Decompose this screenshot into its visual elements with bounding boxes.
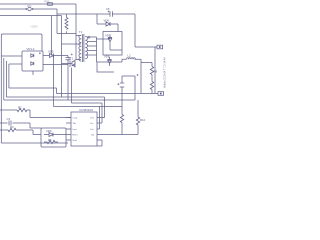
- wire bridge plus out: [43, 55, 48, 57]
- wire AC line 3: [0, 15, 62, 17]
- wire tap aux: [62, 43, 82, 45]
- wire: [57, 33, 76, 35]
- svg-text:VT1: VT1: [68, 57, 74, 61]
- diode VD9: [44, 133, 66, 137]
- wire: [137, 100, 139, 135]
- resistor R8: [150, 67, 153, 75]
- wire secondary bus: [96, 37, 98, 62]
- svg-text:Cmp: Cmp: [73, 117, 78, 119]
- wire filtered dc rail: [57, 13, 135, 15]
- svg-text:VD7: VD7: [105, 34, 111, 38]
- wire tap primary top: [76, 35, 81, 37]
- capacitor C6 bulk: [66, 53, 73, 59]
- svg-text:Vfb: Vfb: [73, 123, 77, 125]
- resistor R3: [0, 128, 41, 134]
- wire gate stub: [62, 63, 70, 65]
- svg-text:VD6: VD6: [104, 19, 110, 23]
- box rectifier outline: [103, 32, 122, 56]
- wire: [51, 16, 53, 56]
- wire: [121, 123, 123, 135]
- wire: [151, 90, 153, 94]
- svg-text:Vref: Vref: [90, 116, 94, 119]
- svg-text:FU1: FU1: [45, 0, 50, 4]
- svg-text:R8: R8: [154, 70, 158, 74]
- capacitor C3: [0, 121, 41, 129]
- wire bottom bus: [1, 142, 68, 144]
- wire nest 3: [4, 58, 135, 100]
- svg-text:VD5: VD5: [48, 50, 54, 54]
- box feedback outline: [41, 128, 66, 147]
- inductor L1: [65, 14, 68, 34]
- wire: [96, 14, 98, 24]
- fuse FU1: [47, 3, 53, 6]
- IC DA1 pin names right: [90, 116, 95, 136]
- svg-text:T1: T1: [79, 30, 83, 34]
- wire AC line 1: [0, 3, 76, 5]
- svg-text:VD9: VD9: [46, 129, 52, 133]
- wire nest 4: [54, 106, 123, 108]
- svg-text:VD1-4: VD1-4: [27, 47, 35, 51]
- diode VD7: [97, 35, 123, 51]
- svg-text:~220V: ~220V: [30, 25, 38, 29]
- wire VD5 cathode down: [53, 56, 55, 107]
- resistor R5: [44, 140, 58, 143]
- wire primary rail: [75, 4, 77, 60]
- wire bridge minus rail: [43, 64, 68, 66]
- svg-text:Out: Out: [90, 128, 94, 131]
- capacitor C10 plus mark: [137, 74, 139, 76]
- wire: [68, 56, 100, 130]
- svg-text:Makita DC1414 T 7.2-14.4V: Makita DC1414 T 7.2-14.4V: [164, 57, 167, 88]
- transformer T1 core: [83, 34, 84, 62]
- wire snubber cap branch: [122, 76, 135, 100]
- connector XS1 pin plus: [157, 45, 163, 49]
- transistor VT1: [70, 60, 76, 68]
- wire pin4: [97, 134, 122, 136]
- svg-text:C5: C5: [106, 7, 110, 11]
- diode VD5: [48, 54, 68, 58]
- wire: [122, 134, 138, 136]
- wire bridge bottom pin: [32, 71, 34, 75]
- wire AC line 2: [0, 8, 57, 10]
- svg-text:C3: C3: [7, 117, 11, 121]
- wire bridge loop: [1, 34, 42, 56]
- wire: [134, 14, 136, 47]
- svg-text:R10: R10: [140, 118, 146, 122]
- svg-text:UC3842AN: UC3842AN: [79, 108, 93, 112]
- capacitor C5: [107, 10, 115, 16]
- wire nest 1: [9, 64, 158, 94]
- wire pin5 bottom: [97, 140, 102, 146]
- resistor R2: [0, 108, 71, 117]
- svg-text:R3: R3: [10, 125, 14, 129]
- wire: [154, 47, 156, 94]
- svg-text:XP1: XP1: [27, 5, 32, 8]
- svg-text:R2: R2: [18, 106, 22, 110]
- inductor L2: [126, 58, 135, 60]
- wire secondary taps: [87, 37, 97, 55]
- svg-text:L2: L2: [128, 54, 132, 58]
- svg-text:Vcc: Vcc: [90, 123, 95, 125]
- IC DA1 pin names left: [73, 117, 78, 141]
- wire bridge ac pin 2: [9, 63, 22, 65]
- diode VD6 snubber: [97, 22, 118, 26]
- svg-text:VD8: VD8: [104, 55, 110, 59]
- svg-text:Gnd: Gnd: [73, 140, 78, 142]
- transformer T1 primary winding: [79, 35, 81, 61]
- wire gate line: [61, 16, 63, 97]
- resistor R11: [150, 82, 153, 90]
- wire output plus: [135, 46, 157, 48]
- svg-text:Rt/Ct: Rt/Ct: [73, 133, 78, 136]
- svg-text:Isen: Isen: [73, 129, 78, 131]
- capacitor C9: [117, 76, 124, 115]
- connector XS1 pin minus: [158, 92, 164, 96]
- wire nest 2: [6, 61, 104, 118]
- transformer T1 secondary winding: [85, 37, 87, 59]
- svg-text:Gd: Gd: [91, 134, 95, 136]
- svg-text:R5: R5: [48, 138, 52, 142]
- wire left outer bus: [0, 56, 2, 143]
- diode VD8: [106, 57, 122, 66]
- IC DA1 left pins: [66, 118, 71, 141]
- wire: [56, 9, 58, 34]
- wire tap primary bottom: [76, 59, 81, 61]
- wire: [151, 75, 153, 82]
- wire: [122, 59, 127, 62]
- wire: [97, 61, 107, 63]
- IC DA1 box: [71, 112, 97, 146]
- transformer phase mark: [88, 36, 90, 39]
- wire VT1 source down: [72, 68, 103, 124]
- resistor R9: [120, 115, 123, 123]
- wire: [117, 24, 119, 32]
- box diode2 outline: [97, 62, 114, 72]
- wire: [135, 59, 153, 93]
- bridge rectifier VD1-4: [22, 51, 43, 71]
- connector XP1 plug: [26, 7, 33, 10]
- resistor R10: [136, 117, 139, 125]
